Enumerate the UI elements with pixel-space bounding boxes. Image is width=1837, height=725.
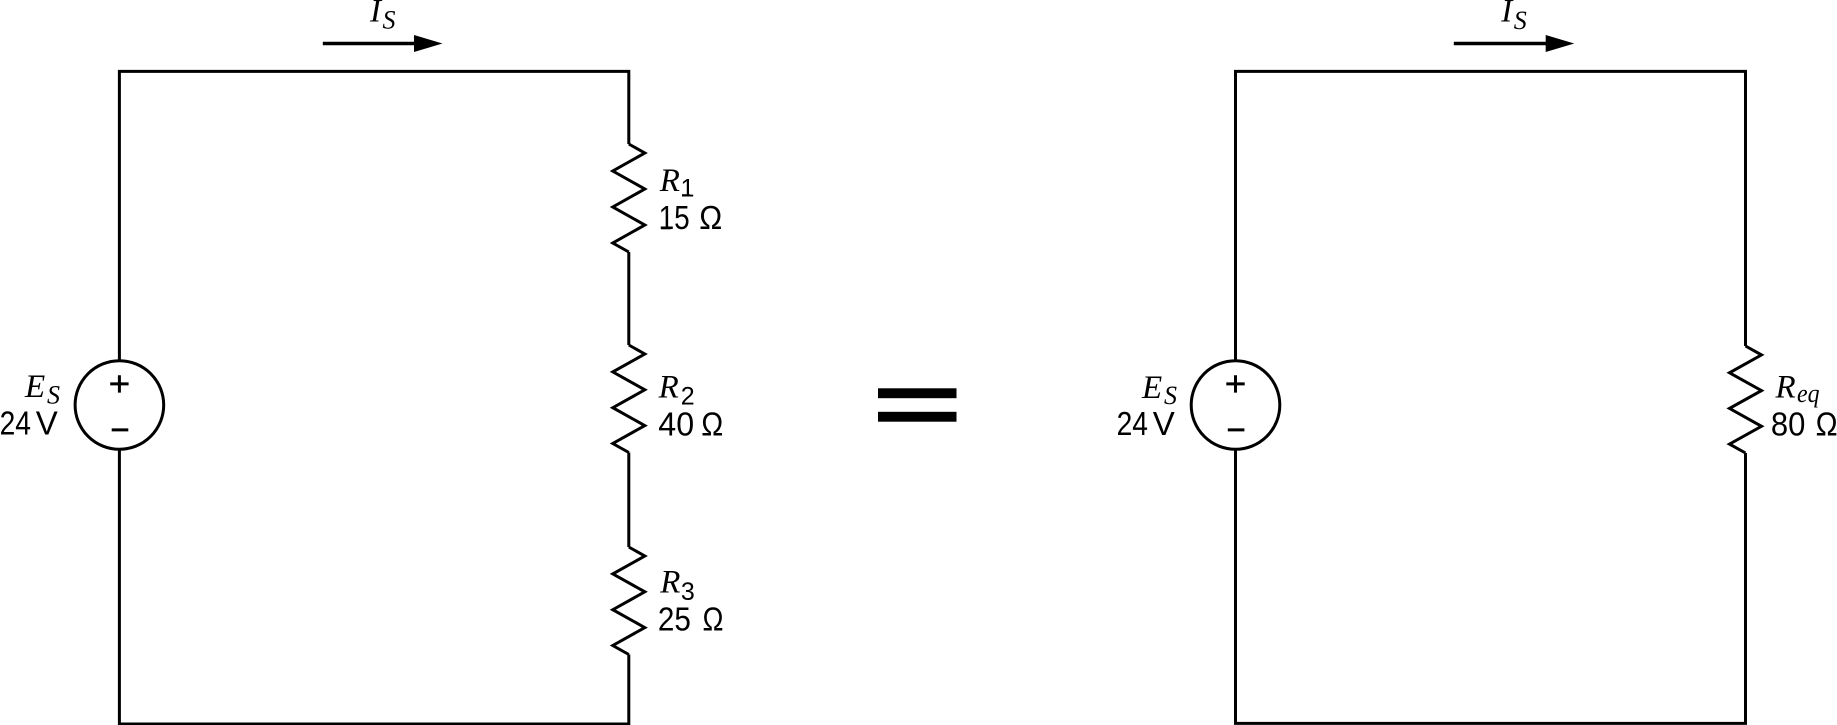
svg-text:E: E [24, 369, 45, 405]
svg-text:eq: eq [1797, 379, 1820, 408]
label R1 [659, 163, 695, 203]
svg-text:40: 40 [658, 406, 694, 443]
svg-text:24: 24 [0, 405, 31, 442]
current arrow IS (right circuit) [1454, 35, 1574, 52]
label IS (left circuit) [369, 0, 396, 35]
resistor R3 [613, 547, 645, 655]
label R2 [658, 369, 695, 410]
label 40 ohm (value of R2) [658, 406, 723, 443]
label IS (right circuit) [1500, 0, 1527, 35]
svg-text:80: 80 [1771, 406, 1806, 443]
label R3 [659, 564, 695, 606]
resistor R1 [613, 144, 645, 252]
svg-text:V: V [36, 405, 58, 442]
svg-text:R: R [659, 163, 680, 199]
svg-text:S: S [383, 6, 396, 35]
svg-text:V: V [1153, 405, 1175, 442]
equals sign [878, 388, 957, 421]
wire: left circuit, bottom loop (R3 down, across bottom, up to source) [119, 450, 628, 724]
svg-text:25: 25 [658, 600, 691, 637]
svg-text:15: 15 [659, 199, 690, 236]
wire: between R1 and R2 [627, 252, 630, 345]
svg-text:Ω: Ω [701, 406, 723, 443]
wire: right circuit, top loop (left side up, across top, down to Req) [1236, 71, 1746, 360]
svg-text:1: 1 [681, 174, 695, 202]
svg-text:I: I [369, 0, 383, 30]
svg-text:R: R [659, 564, 680, 600]
label 24 V (left circuit) [0, 405, 58, 442]
svg-text:R: R [658, 369, 679, 405]
label ES (right circuit) [1141, 370, 1177, 410]
label 15 ohm (value of R1) [659, 199, 723, 236]
label 24 V (right circuit) [1117, 405, 1175, 442]
resistor Req [1730, 346, 1762, 453]
voltage source ES (left circuit) [75, 361, 164, 450]
voltage source ES (right circuit) [1191, 361, 1280, 450]
label 80 ohm (value of Req) [1771, 406, 1837, 443]
wire: right circuit, bottom loop (Req down, across bottom, up to source) [1236, 450, 1746, 723]
resistor R2 [613, 345, 645, 453]
svg-text:Ω: Ω [703, 600, 724, 637]
svg-text:R: R [1775, 369, 1796, 405]
svg-text:Ω: Ω [699, 199, 722, 236]
label 25 ohm (value of R3) [658, 600, 724, 637]
wire: left circuit, top loop (left side up, across top, down to R1) [119, 71, 628, 360]
svg-text:24: 24 [1117, 405, 1148, 442]
label ES (left circuit) [24, 369, 60, 409]
label Req [1775, 369, 1820, 408]
svg-text:I: I [1500, 0, 1514, 30]
svg-text:E: E [1141, 370, 1162, 406]
current arrow IS (left circuit) [323, 35, 443, 52]
wire: between R2 and R3 [627, 453, 630, 548]
svg-text:Ω: Ω [1816, 406, 1837, 443]
svg-text:S: S [1514, 6, 1527, 35]
